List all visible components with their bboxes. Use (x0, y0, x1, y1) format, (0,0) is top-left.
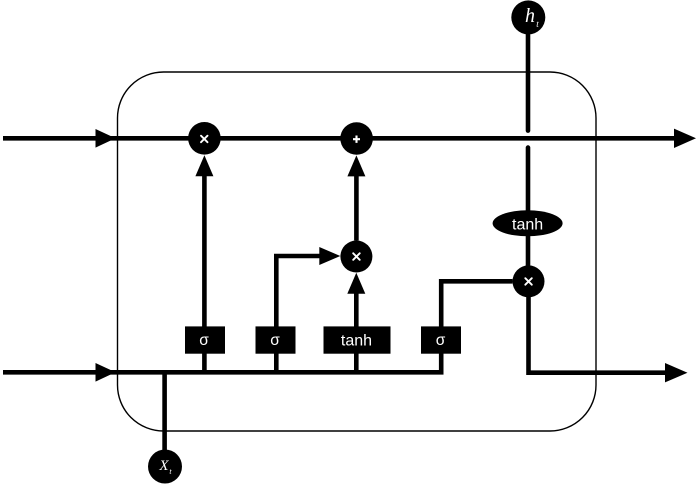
arrowhead: hidden-state input at cell boundary (96, 363, 116, 382)
wire: tanh ellipse to x-gate 3 (526, 235, 531, 268)
svg-text:σ: σ (199, 332, 209, 349)
svg-text:σ: σ (436, 332, 446, 349)
svg-text:X: X (158, 458, 169, 474)
node h_t (511, 0, 545, 34)
wire: sigma4 elbow to x-gate 3 (441, 281, 512, 372)
wire: sigma1 vertical with arrow into x-gate 1 (202, 172, 207, 372)
wire: vertical segment from below cell-state line to tanh ellipse (526, 148, 531, 212)
sigma box 1 (185, 326, 225, 353)
wire: cell-state line (top horizontal) (3, 136, 676, 141)
arrowhead: cell-state output (right end) (674, 129, 696, 148)
sigma box 4 (421, 326, 461, 353)
wire: h_t vertical upper segment (stops at cell-state line) (526, 33, 531, 131)
tanh ellipse (493, 210, 563, 236)
tanh box (324, 326, 391, 353)
arrowhead: cell-state input at cell boundary (96, 129, 116, 148)
wire: x-gate2 to plus-gate with arrow (354, 172, 359, 241)
wire: sigma2 elbow with arrow into x-gate 2 (276, 256, 320, 372)
wire: output elbow to right exit (529, 297, 667, 373)
wire: hidden-state line (bottom horizontal) (3, 370, 444, 375)
svg-text:h: h (525, 5, 535, 27)
operator: x-gate 2 (input multiply) (340, 241, 372, 273)
svg-text:σ: σ (270, 332, 280, 349)
operator: plus-gate (cell state add) (340, 122, 373, 155)
arrowhead: hidden-state output (bottom right) (665, 363, 688, 382)
LSTM cell body rounded rectangle (118, 72, 597, 431)
svg-text:tanh: tanh (512, 217, 543, 234)
wire: tanh-box vertical with arrow into x-gate 2 (354, 289, 359, 372)
operator: x-gate 1 (forget multiply) (188, 122, 221, 155)
wire: X_t drop line (162, 372, 167, 451)
node X_t (148, 450, 182, 484)
sigma box 2 (256, 326, 296, 353)
svg-text:tanh: tanh (341, 333, 372, 350)
operator: x-gate 3 (output multiply) (513, 265, 545, 297)
